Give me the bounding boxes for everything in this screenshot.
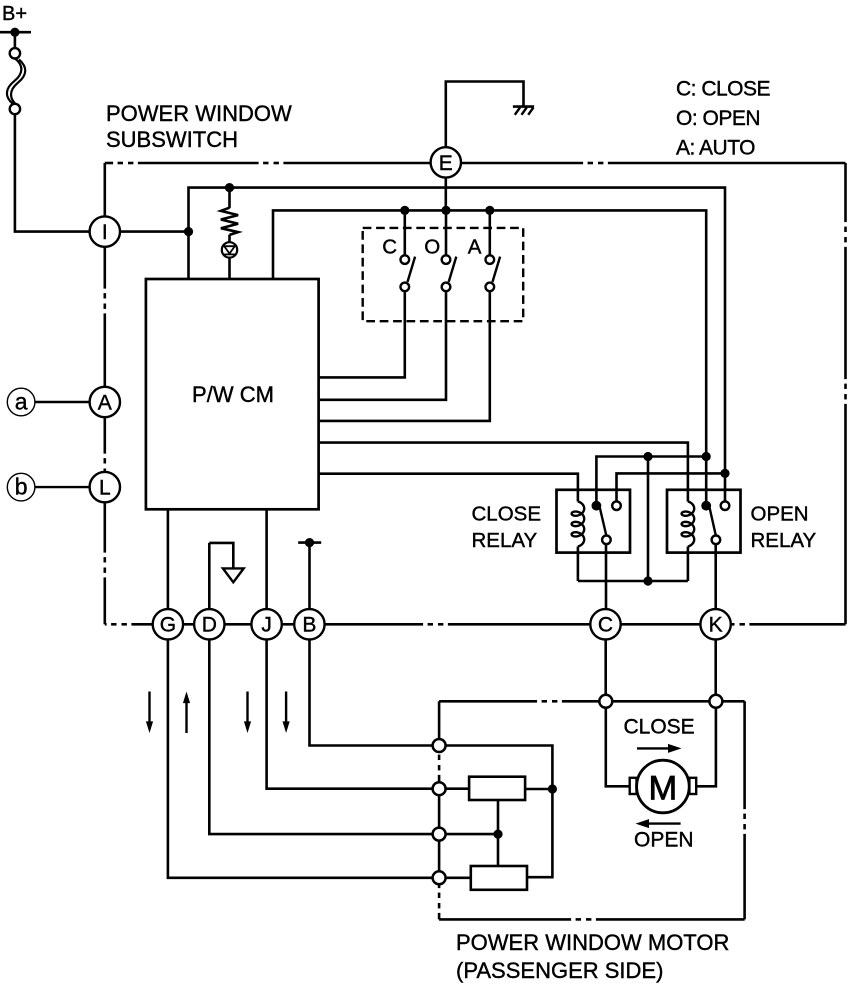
LED D1 cathode bar: [224, 253, 235, 255]
P/W CM control module box: [146, 279, 319, 509]
svg-text:POWER WINDOW: POWER WINDOW: [106, 101, 292, 126]
junction dot commons rail right: [702, 452, 711, 461]
svg-text:P/W CM: P/W CM: [192, 382, 274, 407]
flow arrow down (J wire): [246, 692, 248, 724]
svg-text:OPEN: OPEN: [751, 503, 809, 526]
svg-text:B+: B+: [2, 3, 27, 25]
svg-text:K: K: [709, 614, 723, 637]
close relay K1 common contact: [592, 501, 602, 511]
junction dot resistor top: [225, 183, 234, 192]
wire switch A to P/W CM: [319, 291, 490, 421]
flow arrow down (B wire): [285, 692, 287, 724]
svg-text:RELAY: RELAY: [751, 529, 817, 552]
junction dot commons rail left: [643, 452, 652, 461]
motor connector pin 5: [433, 828, 446, 841]
svg-text:POWER WINDOW MOTOR: POWER WINDOW MOTOR: [456, 930, 729, 955]
ground G1 hatch 1: [515, 108, 520, 115]
ground G1 hatch 3: [528, 108, 533, 115]
wire rail from I junction to open-relay NO contact (upper rail): [189, 188, 726, 506]
wire connector G to motor pin 4: [168, 624, 439, 878]
junction dot I-rail: [184, 227, 193, 236]
wire commons rail to coil-return rail: [647, 457, 650, 582]
motor connector pin 1: [599, 695, 612, 708]
output arrow from D (hollow): [209, 543, 233, 569]
power window motor boundary (dash-dot right edge): [743, 701, 746, 809]
svg-text:I: I: [102, 221, 108, 244]
svg-text:A: A: [468, 236, 482, 259]
junction dot switch O: [441, 206, 450, 215]
power window subswitch boundary (dash-dot left edge): [104, 163, 107, 289]
open relay K2 box: [667, 490, 741, 553]
svg-text:RELAY: RELAY: [472, 529, 538, 552]
motor connector pin 6: [433, 871, 446, 884]
svg-text:O: OPEN: O: OPEN: [676, 107, 760, 130]
junction dot switch A: [485, 206, 494, 215]
wire switch O to P/W CM: [319, 291, 446, 400]
motor connector pin 4: [433, 782, 446, 795]
wire close relay common to open relay common (rail): [596, 457, 706, 506]
junction dot mid tap: [493, 830, 502, 839]
wire motor pin 3 to resistor mid tap: [439, 833, 498, 836]
svg-text:M: M: [649, 769, 678, 807]
resistor R2 (motor network): [469, 777, 525, 800]
switch C top contact: [401, 255, 410, 264]
switch A blade: [493, 257, 501, 282]
wire connector C to motor pin: [604, 624, 607, 701]
LED D1 (indicator) circle: [222, 242, 237, 257]
svg-text:C: CLOSE: C: CLOSE: [676, 77, 771, 100]
power window motor boundary (dash-dot bottom edge): [439, 918, 571, 921]
ground G1 hatch 2: [522, 108, 527, 115]
junction dot B+: [10, 28, 19, 37]
svg-text:A: AUTO: A: AUTO: [676, 136, 755, 159]
wire resistor to LED: [228, 235, 231, 243]
connector E: [431, 147, 461, 177]
svg-text:A: A: [98, 391, 112, 414]
close relay K1 box: [557, 490, 631, 553]
wire fuse to connector I: [15, 114, 105, 232]
flow arrow down (G wire): [148, 692, 150, 724]
open relay K2 blade: [709, 503, 716, 536]
power window motor boundary (dash-dot left edge): [438, 701, 441, 750]
svg-text:C: C: [598, 614, 613, 637]
wire P/W CM to connector G: [167, 509, 170, 624]
wire rail P/W CM to switch commons and open-relay common (lower rail): [273, 210, 706, 505]
fuse F1 top terminal: [10, 48, 20, 58]
junction dot NO rail: [720, 469, 729, 478]
resistor R3 (motor network): [471, 866, 527, 890]
close relay K1 NO contact: [612, 501, 621, 510]
motor connector pin 2: [709, 695, 722, 708]
open direction arrow: [648, 822, 681, 824]
wire connector D to motor pin 3: [209, 624, 439, 834]
switch A top contact: [486, 255, 495, 264]
svg-text:CLOSE: CLOSE: [472, 503, 542, 526]
close relay K1 blade: [599, 503, 607, 536]
wire open coil bottom: [687, 547, 690, 582]
connector D: [194, 609, 224, 639]
wire P/W CM to open relay coil: [319, 443, 688, 502]
wire a to connector A: [35, 401, 90, 403]
junction dot resistor R2 right: [548, 784, 557, 793]
junction dot B stub: [305, 538, 314, 547]
open relay K2 output contact: [712, 536, 721, 545]
connector C: [590, 609, 620, 639]
ground G1 bar: [513, 105, 534, 108]
motor M1 left brush: [630, 778, 637, 794]
wire P/W CM to connector J: [265, 509, 268, 624]
wire close relay NO to open relay NO (rail): [617, 473, 726, 501]
connector B: [294, 609, 324, 639]
motor M1 body: [637, 760, 690, 813]
wire resistor branch upper: [228, 188, 231, 209]
wire connector E to ground: [446, 82, 524, 163]
svg-text:b: b: [15, 474, 28, 500]
wire resistor R2 right lead: [525, 788, 552, 791]
wire LED to P/W CM: [228, 258, 231, 279]
close direction arrow: [637, 747, 669, 749]
wire rail to switch O top: [445, 210, 448, 255]
wire open relay to connector K: [714, 544, 717, 624]
svg-text:C: C: [382, 236, 397, 259]
wire close relay to connector C: [605, 544, 608, 624]
wire motor pin 1 to resistor network: [439, 746, 552, 878]
junction dot coil return: [643, 576, 652, 585]
resistor R1 (illumination): [221, 208, 238, 235]
open relay K2 coil: [682, 502, 695, 547]
wire stub at B: [298, 541, 321, 544]
switch A bottom contact: [486, 283, 495, 292]
power window subswitch boundary (dash-dot right edge): [844, 163, 847, 222]
node a circle: [7, 388, 35, 416]
connector I: [90, 216, 120, 246]
power window motor boundary (dash-dot top edge): [439, 700, 537, 703]
connector G: [153, 609, 183, 639]
svg-text:B: B: [302, 614, 316, 637]
LED D1 triangle: [224, 246, 235, 253]
wire connector K to motor pin: [714, 624, 717, 701]
switch O top contact: [442, 255, 451, 264]
svg-text:CLOSE: CLOSE: [624, 716, 695, 739]
wire motor pin 4 to resistor R3: [439, 876, 471, 879]
wire connector B to motor pin 1: [310, 624, 440, 745]
fuse F1 body: [7, 58, 21, 104]
wire motor pin 2 to resistor R2: [439, 787, 469, 790]
switch C bottom contact: [401, 283, 410, 292]
svg-text:SUBSWITCH: SUBSWITCH: [106, 127, 238, 152]
wire close coil bottom: [577, 547, 580, 582]
flow arrow up (D wire): [185, 702, 187, 734]
junction dot switch C: [400, 206, 409, 215]
switch C blade: [408, 257, 416, 282]
wire B+ to fuse: [14, 32, 17, 49]
switch O blade: [449, 257, 457, 282]
wire switch C to P/W CM: [319, 291, 405, 377]
close relay K1 coil: [572, 502, 585, 547]
wire motor pin to motor + brush: [606, 701, 630, 786]
svg-text:E: E: [439, 152, 453, 175]
wire connector E to lower rail: [444, 162, 447, 210]
wire motor pin to motor - brush: [696, 701, 716, 786]
B+ terminal bar: [0, 31, 31, 34]
svg-text:(PASSENGER SIDE): (PASSENGER SIDE): [456, 958, 663, 983]
wire resistor mid link: [497, 800, 500, 866]
close relay K1 output contact: [602, 536, 611, 545]
wire coil return rail: [578, 580, 688, 583]
wire rail to switch C top: [403, 210, 406, 255]
connector J: [251, 609, 281, 639]
wire connector I to node: [105, 230, 189, 233]
switch block dashed box: [363, 228, 524, 321]
wire connector J to motor pin 2: [267, 624, 440, 788]
svg-text:OPEN: OPEN: [634, 828, 694, 851]
motor connector pin 3: [433, 739, 446, 752]
wire P/W CM to close relay coil: [319, 474, 578, 502]
power window subswitch boundary (dash-dot top edge): [105, 162, 113, 165]
motor M1 right brush: [689, 778, 696, 794]
connector L: [90, 472, 120, 502]
svg-text:a: a: [15, 389, 28, 415]
open relay K2 NO contact: [721, 501, 730, 510]
wire connector D riser: [208, 543, 211, 609]
connector A: [90, 387, 120, 417]
svg-text:D: D: [202, 614, 217, 637]
connector K: [700, 609, 730, 639]
wire b to connector L: [35, 486, 90, 488]
wire B stub to connector B: [308, 543, 311, 625]
svg-text:L: L: [99, 477, 111, 500]
wire rail to switch A top: [488, 210, 491, 255]
svg-text:O: O: [424, 236, 440, 259]
power window subswitch boundary (dash-dot bottom edge): [105, 623, 107, 626]
open relay K2 common contact: [701, 501, 711, 511]
node b circle: [7, 473, 35, 501]
switch O bottom contact: [442, 283, 451, 292]
svg-text:G: G: [160, 614, 176, 637]
svg-text:J: J: [261, 614, 272, 637]
fuse F1 bottom terminal: [10, 104, 20, 114]
